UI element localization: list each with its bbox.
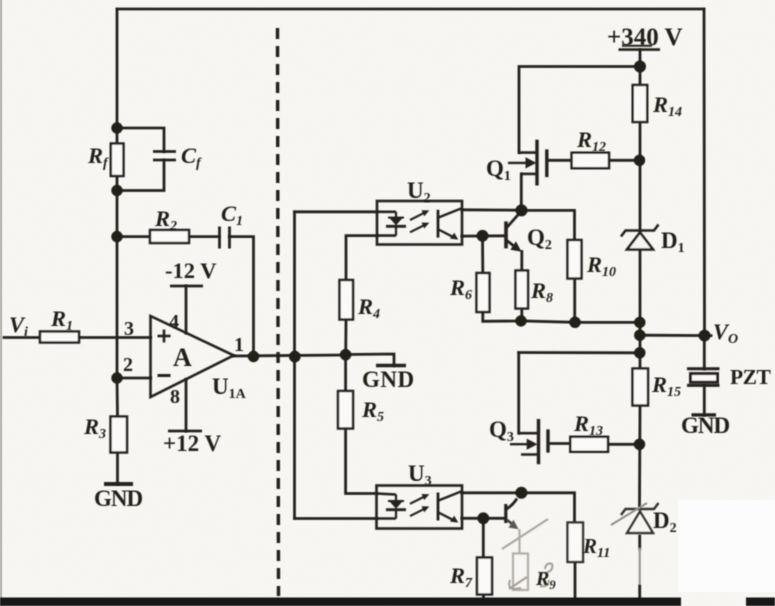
transistor Q1 source stub [521, 173, 537, 176]
resistor R12 [572, 153, 609, 169]
ground symbol right GND bar [692, 413, 717, 416]
capacitor Cf [153, 152, 176, 161]
node dot Vo line main column [634, 330, 645, 341]
wire junction to GND stub [346, 354, 395, 366]
node dot output splitter [289, 351, 301, 363]
wire Q1 source down to node [520, 174, 523, 211]
resistor R8 [516, 271, 529, 309]
wire R10 bottom stub [573, 279, 576, 323]
node dot Q3 source U3 collector [515, 487, 527, 499]
wire PZT bottom to GND [703, 385, 706, 415]
resistor R11 [568, 523, 584, 563]
piezo PZT bottom plate [687, 384, 720, 387]
transistor Q3 drain stub [519, 432, 539, 435]
wire inverting node down to R3 [116, 378, 119, 417]
node dot R2 junction [111, 231, 122, 242]
transistor Q3 MOSFET gate bar [546, 429, 549, 452]
transistor Q2 collector [507, 212, 521, 228]
transistor Q2 base bar [504, 221, 508, 248]
node dot Rf top [111, 122, 122, 133]
wire D2 faded segment [639, 549, 641, 586]
piezo PZT top plate [687, 367, 720, 370]
transistor Q4 collector [507, 499, 518, 510]
wire R13 right to main column [608, 443, 640, 446]
wire U2 pin4 to Q1 source node [462, 208, 522, 211]
bottom rail right segment [746, 598, 775, 606]
wire Q3 source node to R11 [521, 493, 574, 523]
resistor R1 [40, 332, 79, 343]
wire R12 right to main column [609, 159, 640, 162]
piezo PZT body [691, 374, 718, 383]
optocoupler U2 emitter arrowhead [450, 233, 458, 240]
resistor Rf [111, 144, 124, 177]
op-amp minus sign [158, 374, 171, 377]
wire op-amp pin 8 to +12V bar [185, 380, 188, 432]
transistor Q3 source stub [521, 453, 539, 456]
wire Vo line from main column to PZT branch [640, 334, 711, 337]
resistor R7 [477, 558, 492, 595]
wire R5 bottom to U3 pin1 [346, 429, 377, 494]
ground symbol left GND bar [104, 482, 133, 486]
op-amp plus sign [158, 330, 171, 343]
wire Q1 source node to R10 [522, 210, 575, 240]
wire U2 pin3 to Q2 base [462, 234, 504, 237]
wire R8 bottom stub [520, 309, 523, 321]
transistor Q3 MOSFET channel bar [537, 419, 540, 464]
resistor R15 [633, 369, 649, 406]
wire R4 bottom to junction [344, 320, 347, 356]
resistor R9 faded [513, 554, 528, 591]
wire R2 right to C1 left plate [189, 235, 219, 238]
transistor Q1 substrate arrow [508, 157, 536, 168]
optocoupler U2 phototransistor [438, 209, 461, 238]
wire +340V bar to R14 [639, 50, 642, 85]
resistor R5 [338, 391, 353, 429]
node dot inverting input [111, 372, 122, 383]
wire inverting input node to op-amp pin 2 [117, 377, 151, 380]
node dot R12 main column [634, 155, 645, 166]
wire R14 bottom to D1 [639, 122, 642, 231]
scribble artifact diagonal bottom [502, 519, 548, 549]
node dot Q3 drain rail main column [634, 347, 645, 358]
wire horizontal rail to main column at Q3 drain level [519, 351, 640, 354]
node dot C1 output branch [248, 351, 259, 362]
transistor Q1 drain stub [519, 151, 537, 154]
wire D2 bottom fading to bottom rail [638, 536, 641, 549]
transistor Q4 base bar [504, 504, 507, 523]
transistor Q3 substrate arrow [510, 439, 538, 450]
wire top feedback rail from Rf top to right border [117, 8, 704, 11]
node dot R8 bus [515, 315, 526, 326]
wire splitter to U2 pin1 [295, 210, 378, 213]
wire R1 to op-amp noninverting input pin 3 [79, 336, 151, 339]
node dot Q1 source Q2 collector [516, 204, 528, 216]
wire +340V junction to Q1 drain [519, 67, 640, 153]
scribble artifact over D2 [611, 503, 647, 525]
wire bottom bus R8 to R10 to main column [521, 321, 640, 323]
node dot bus main column [634, 317, 645, 328]
node dot R4 R5 junction [340, 349, 351, 360]
zener diode D1 [621, 225, 659, 250]
white patch bottom right [678, 500, 775, 592]
optocoupler U3 LED [377, 494, 407, 519]
resistor R4 [340, 280, 354, 320]
node dot Rf bottom [111, 185, 122, 196]
wire U2 pin2 down to R4 [346, 236, 377, 280]
resistor R14 [633, 85, 648, 122]
resistor R3 [111, 417, 128, 453]
optocoupler U3 box [377, 486, 463, 529]
wire Cf branch top [117, 128, 164, 152]
wire R11 bottom to bottom rail [574, 562, 577, 600]
transistor Q4 emitter arrowhead faded [509, 520, 519, 529]
transistor Q1 MOSFET channel bar [535, 140, 538, 186]
ground symbol middle GND bar [376, 364, 406, 367]
resistor R2 [150, 230, 189, 243]
transistor Q2 emitter [507, 241, 517, 249]
scribble artifact small marks [509, 564, 552, 589]
left scan edge [0, 0, 2, 606]
zener diode D2 [621, 503, 659, 533]
wire Cf branch bottom [117, 160, 164, 190]
wire right border from top rail down to Vo node [703, 9, 706, 336]
resistor R6 [477, 273, 490, 312]
wire R15 bottom to R13 junction and down to D2 [638, 406, 641, 507]
transistor Q2 emitter arrowhead [510, 241, 521, 252]
wire Q2 base node down to R6 [481, 236, 484, 273]
wire R6 bottom to bottom bus [483, 312, 521, 321]
wire vertical splitter from U2 input down to U3 input [293, 212, 296, 519]
dashed separator line [278, 28, 279, 596]
optocoupler U2 LED [377, 212, 406, 236]
wire Q1 gate lead to R12 [548, 159, 571, 162]
wire Q2 emitter down to R8 [520, 252, 523, 271]
optocoupler U3 phototransistor [438, 492, 461, 521]
wire C1 right plate to output branch corner [230, 237, 254, 357]
node dot R7 U3 emitter [477, 512, 489, 524]
node dot R13 main column [634, 439, 645, 450]
capacitor C1 [220, 227, 230, 249]
wire R2 node to R2 left [117, 235, 150, 238]
wire R7 node down to R7 [482, 518, 485, 557]
resistor R10 [568, 240, 582, 279]
wire R7 bottom to bottom rail [482, 595, 485, 601]
power -12V bar [170, 285, 203, 288]
node dot Vo output [699, 330, 711, 342]
transistor Q4 emitter wire faded [518, 529, 520, 554]
wire op-amp output to R4 R5 junction [234, 355, 346, 356]
wire D1 to lower junctions [639, 250, 642, 369]
transistor Q1 MOSFET gate bar [545, 149, 548, 177]
node dot R10 bus [569, 317, 580, 328]
power +340V bar [619, 46, 661, 50]
resistor R13 [570, 437, 608, 452]
optocoupler U3 emitter arrowhead [450, 516, 458, 523]
bottom rail left segment [0, 598, 681, 606]
wire Rf bottom to R2 node and down to inverting input node [116, 176, 119, 378]
wire op-amp pin 4 to -12V bar [185, 286, 188, 333]
wire Q3 drain column from horizontal rail [517, 353, 520, 434]
wire R3 bottom to GND [116, 453, 119, 485]
transistor Q4 emitter faded [507, 520, 514, 526]
power +12V bar [168, 430, 202, 433]
optocoupler U3 light arrows [410, 494, 429, 516]
wire U3 pin4 through R7 node to Q4 base [462, 517, 504, 520]
wire splitter to U3 pin2 [295, 517, 377, 520]
wire Q3 gate lead to R13 [550, 442, 571, 445]
node dot +340V junction [634, 61, 646, 73]
wire Vi input to R1 [4, 336, 40, 339]
wire D2 bottom reaching rail [638, 586, 641, 600]
op-amp U1A triangle [151, 316, 234, 397]
node dot Q2 base R6 [477, 230, 489, 242]
wire left column top segment into Rf [116, 9, 119, 144]
optocoupler U2 box [377, 201, 462, 245]
wire junction down to R5 [344, 355, 347, 391]
wire U3 pin3 to Q3 source node [462, 491, 521, 494]
wire Vo node down to PZT [703, 336, 706, 369]
optocoupler U2 light arrows [410, 210, 429, 232]
